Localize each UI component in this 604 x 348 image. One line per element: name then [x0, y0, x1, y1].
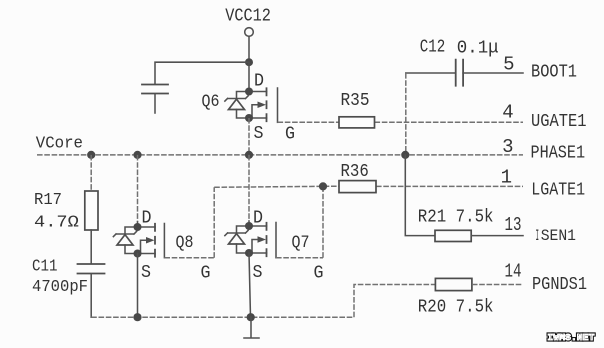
svg-text:BOOT1: BOOT1 — [531, 63, 577, 83]
svg-text:Q7: Q7 — [292, 233, 310, 253]
svg-text:I: I — [536, 227, 540, 245]
svg-text:UGATE1: UGATE1 — [531, 112, 587, 132]
svg-text:G: G — [314, 264, 324, 284]
svg-text:4700pF: 4700pF — [32, 277, 88, 296]
svg-text:C11: C11 — [32, 256, 58, 275]
svg-text:R21 7.5k: R21 7.5k — [418, 208, 494, 228]
svg-text:14: 14 — [505, 261, 522, 283]
svg-text:R36: R36 — [341, 162, 369, 182]
svg-text:G: G — [285, 125, 295, 145]
svg-text:3: 3 — [502, 136, 513, 158]
svg-text:R20 7.5k: R20 7.5k — [418, 298, 494, 318]
svg-text:Q8: Q8 — [176, 233, 194, 253]
svg-text:S: S — [141, 263, 151, 283]
svg-text:R35: R35 — [341, 91, 370, 111]
svg-text:1: 1 — [501, 167, 512, 189]
svg-text:4.7Ω: 4.7Ω — [34, 212, 79, 231]
svg-text:SEN1: SEN1 — [541, 227, 576, 245]
svg-text:G: G — [201, 264, 211, 284]
svg-text:0.1μ: 0.1μ — [457, 39, 499, 59]
svg-text:D: D — [253, 209, 263, 229]
svg-text:S: S — [254, 124, 264, 144]
svg-text:R17: R17 — [34, 190, 62, 209]
svg-text:S: S — [253, 263, 263, 283]
svg-text:D: D — [254, 72, 264, 92]
svg-text:VCore: VCore — [36, 134, 83, 153]
svg-text:D: D — [142, 209, 152, 229]
svg-text:5: 5 — [503, 53, 514, 75]
svg-text:C12: C12 — [420, 38, 446, 58]
svg-text:13: 13 — [505, 214, 522, 236]
svg-text:IWMS.NET: IWMS.NET — [547, 332, 594, 343]
svg-text:Q6: Q6 — [202, 92, 220, 112]
svg-text:PHASE1: PHASE1 — [531, 144, 586, 164]
svg-text:LGATE1: LGATE1 — [531, 181, 585, 201]
svg-text:VCC12: VCC12 — [225, 6, 271, 26]
svg-text:PGNDS1: PGNDS1 — [532, 275, 587, 295]
svg-text:4: 4 — [502, 102, 513, 124]
